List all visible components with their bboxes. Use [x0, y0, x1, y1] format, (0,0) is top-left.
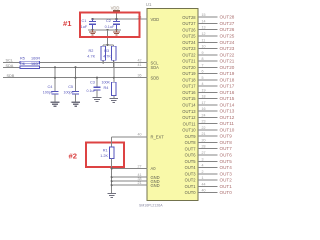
- svg-text:OUT28: OUT28: [182, 15, 196, 20]
- svg-text:19: 19: [202, 88, 206, 92]
- svg-text:27: 27: [202, 151, 206, 155]
- svg-text:7: 7: [202, 63, 204, 67]
- svg-text:OUT6: OUT6: [185, 153, 197, 158]
- svg-text:OUT23: OUT23: [182, 46, 196, 51]
- svg-text:OUT8: OUT8: [220, 140, 233, 145]
- svg-text:5: 5: [202, 76, 204, 80]
- svg-text:#2: #2: [69, 152, 77, 161]
- svg-text:#1: #1: [63, 19, 72, 28]
- svg-text:GND: GND: [151, 183, 160, 188]
- svg-text:0.1uF: 0.1uF: [105, 25, 115, 29]
- svg-text:R1: R1: [103, 149, 108, 153]
- svg-text:4: 4: [202, 82, 204, 86]
- svg-text:OUT11: OUT11: [183, 121, 197, 126]
- svg-text:OUT23: OUT23: [220, 46, 235, 51]
- svg-text:OUT17: OUT17: [182, 84, 196, 89]
- svg-text:C1: C1: [82, 19, 87, 23]
- svg-text:OUT24: OUT24: [220, 40, 235, 45]
- svg-text:OUT4: OUT4: [220, 165, 233, 170]
- svg-text:C3: C3: [90, 80, 95, 84]
- svg-text:41: 41: [138, 63, 142, 67]
- svg-text:OUT22: OUT22: [182, 52, 196, 57]
- svg-text:100K: 100K: [102, 80, 111, 84]
- svg-text:OUT14: OUT14: [220, 102, 235, 107]
- svg-text:OUT11: OUT11: [220, 121, 235, 126]
- svg-text:8: 8: [202, 57, 204, 61]
- svg-text:OUT6: OUT6: [220, 153, 233, 158]
- svg-text:OUT0: OUT0: [185, 190, 197, 195]
- svg-text:13: 13: [202, 26, 206, 30]
- svg-text:SDA: SDA: [6, 64, 14, 68]
- svg-text:OUT15: OUT15: [182, 96, 196, 101]
- svg-text:SDA: SDA: [151, 65, 160, 70]
- svg-text:C2: C2: [106, 19, 111, 23]
- svg-text:OUT5: OUT5: [185, 159, 197, 164]
- svg-text:OUT3: OUT3: [185, 171, 197, 176]
- svg-text:OUT9: OUT9: [220, 134, 233, 139]
- svg-text:OUT16: OUT16: [182, 90, 196, 95]
- svg-text:OUT24: OUT24: [182, 40, 196, 45]
- svg-text:OUT3: OUT3: [220, 171, 233, 176]
- svg-text:C5: C5: [68, 85, 73, 89]
- svg-text:OUT21: OUT21: [182, 59, 196, 64]
- svg-text:4: 4: [202, 164, 204, 168]
- svg-text:OUT16: OUT16: [220, 90, 235, 95]
- svg-text:0.1uF: 0.1uF: [87, 89, 97, 93]
- svg-text:OUT26: OUT26: [220, 27, 235, 32]
- svg-text:OUT0: OUT0: [220, 190, 233, 195]
- svg-text:20: 20: [202, 138, 206, 142]
- svg-text:27: 27: [138, 164, 142, 168]
- svg-text:OUT13: OUT13: [220, 109, 235, 114]
- svg-text:10: 10: [202, 45, 206, 49]
- svg-text:A0: A0: [151, 166, 157, 171]
- svg-text:OUT19: OUT19: [182, 71, 196, 76]
- svg-text:22: 22: [202, 126, 206, 130]
- svg-text:OUT7: OUT7: [185, 146, 197, 151]
- svg-text:SCL: SCL: [6, 59, 13, 63]
- svg-text:SDB: SDB: [7, 74, 15, 78]
- svg-text:14: 14: [202, 19, 206, 23]
- svg-text:16: 16: [202, 107, 206, 111]
- svg-text:100pF: 100pF: [43, 91, 54, 95]
- svg-text:40: 40: [202, 189, 206, 193]
- svg-text:3: 3: [202, 157, 204, 161]
- svg-text:OUT20: OUT20: [220, 65, 235, 70]
- svg-text:1uF: 1uF: [81, 25, 88, 29]
- svg-text:OUT20: OUT20: [182, 65, 196, 70]
- svg-text:4.7K: 4.7K: [103, 54, 111, 58]
- svg-text:9: 9: [202, 51, 204, 55]
- svg-text:OUT27: OUT27: [220, 21, 235, 26]
- svg-text:R5: R5: [20, 57, 25, 61]
- svg-text:OUT5: OUT5: [220, 159, 233, 164]
- svg-text:OUT2: OUT2: [185, 178, 197, 183]
- svg-text:U1: U1: [146, 2, 152, 7]
- svg-text:18: 18: [202, 95, 206, 99]
- svg-text:1.2K: 1.2K: [100, 154, 108, 158]
- svg-text:OUT21: OUT21: [220, 59, 235, 64]
- svg-text:OUT10: OUT10: [182, 128, 196, 133]
- svg-text:OUT27: OUT27: [182, 21, 196, 26]
- svg-text:OUT9: OUT9: [185, 134, 197, 139]
- svg-text:OUT17: OUT17: [220, 84, 235, 89]
- svg-text:160R: 160R: [31, 57, 40, 61]
- svg-text:R2: R2: [89, 49, 94, 53]
- svg-text:15: 15: [202, 13, 206, 17]
- svg-text:OUT2: OUT2: [220, 178, 233, 183]
- svg-text:OUT4: OUT4: [185, 165, 197, 170]
- svg-text:OUT12: OUT12: [182, 115, 196, 120]
- svg-text:12: 12: [202, 32, 206, 36]
- svg-text:1: 1: [202, 176, 204, 180]
- svg-text:40: 40: [138, 133, 142, 137]
- svg-text:160R: 160R: [31, 62, 40, 66]
- svg-text:36: 36: [138, 74, 142, 78]
- svg-text:R3: R3: [104, 49, 109, 53]
- svg-text:OUT25: OUT25: [220, 33, 235, 38]
- svg-text:SM16PL2126A: SM16PL2126A: [139, 204, 163, 208]
- svg-text:OUT1: OUT1: [220, 184, 233, 189]
- svg-text:OUT25: OUT25: [182, 34, 196, 39]
- svg-text:28: 28: [202, 145, 206, 149]
- svg-text:4.7K: 4.7K: [87, 54, 95, 58]
- svg-text:OUT7: OUT7: [220, 146, 233, 151]
- svg-text:100pF: 100pF: [64, 91, 75, 95]
- svg-text:OUT13: OUT13: [182, 109, 196, 114]
- svg-text:17: 17: [202, 101, 206, 105]
- svg-text:OUT22: OUT22: [220, 52, 235, 57]
- svg-text:OUT28: OUT28: [220, 15, 235, 20]
- svg-text:OUT15: OUT15: [220, 96, 235, 101]
- svg-text:OUT12: OUT12: [220, 115, 235, 120]
- svg-text:21: 21: [202, 132, 206, 136]
- svg-text:OUT19: OUT19: [220, 71, 235, 76]
- svg-text:OUT26: OUT26: [182, 27, 196, 32]
- svg-text:OUT18: OUT18: [182, 77, 196, 82]
- svg-text:VDD: VDD: [111, 5, 120, 10]
- svg-text:SDB: SDB: [151, 75, 160, 80]
- svg-text:R6: R6: [20, 62, 25, 66]
- svg-text:VDD: VDD: [151, 17, 160, 22]
- svg-text:OUT10: OUT10: [220, 127, 235, 132]
- svg-text:11: 11: [202, 38, 206, 42]
- svg-text:R_EXT: R_EXT: [151, 135, 165, 140]
- svg-text:OUT8: OUT8: [185, 140, 197, 145]
- svg-text:OUT1: OUT1: [185, 184, 197, 189]
- svg-text:2: 2: [202, 170, 204, 174]
- svg-text:6: 6: [202, 70, 204, 74]
- svg-text:R4: R4: [104, 86, 109, 90]
- svg-text:OUT14: OUT14: [182, 102, 196, 107]
- svg-text:C4: C4: [48, 85, 53, 89]
- svg-text:23: 23: [202, 120, 206, 124]
- svg-text:44: 44: [202, 182, 206, 186]
- svg-text:OUT18: OUT18: [220, 77, 235, 82]
- svg-text:24: 24: [202, 113, 206, 117]
